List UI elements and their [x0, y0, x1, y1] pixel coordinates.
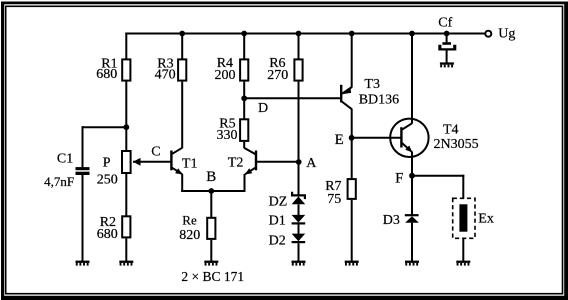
transistor T2: [244, 148, 256, 175]
svg-text:4,7nF: 4,7nF: [44, 174, 74, 189]
label Ex: [478, 211, 494, 226]
wire (R3 to T1 collector): [181, 34, 183, 149]
ground (Re): [204, 261, 218, 266]
node (R1/P/C1 junction): [123, 124, 129, 130]
zener diode DZ: [292, 192, 306, 205]
label Ug: [498, 26, 515, 41]
terminal Ug: [485, 31, 491, 37]
wire (node to C1): [82, 126, 127, 167]
wire (R5 to T2 collector): [243, 142, 245, 149]
wire (T2 base to node A): [256, 161, 300, 163]
node A: [296, 159, 302, 165]
resistor R5: [240, 119, 248, 141]
wiper arrow (P): [133, 158, 141, 166]
label D: [258, 101, 268, 116]
svg-text:A: A: [306, 156, 317, 171]
transistor T4: [390, 119, 428, 157]
wire (top supply rail): [125, 33, 484, 35]
wire (B to Re): [210, 191, 212, 218]
wire (T1 base from P): [133, 161, 171, 163]
wire (D2 to ground): [298, 243, 300, 261]
svg-text:F: F: [395, 171, 403, 187]
label E: [335, 132, 344, 148]
label D2: [269, 234, 286, 249]
wire (rail to T3 emitter): [351, 34, 353, 88]
node (rail/R6): [296, 31, 302, 37]
svg-text:D2: D2: [269, 234, 286, 249]
node (rail/T3 emitter): [349, 31, 355, 37]
node F: [409, 173, 415, 179]
label T2: [228, 156, 244, 171]
wire (R7 to ground): [351, 200, 353, 261]
svg-text:B: B: [206, 169, 216, 185]
wire (T2 emitter down): [244, 174, 246, 192]
wire (P top): [125, 127, 127, 151]
capacitor Cf: [438, 34, 456, 63]
label R4: [215, 56, 236, 83]
potentiometer P: [122, 151, 131, 173]
svg-text:680: 680: [97, 227, 118, 242]
wire (A to DZ): [298, 162, 300, 195]
svg-text:680: 680: [96, 67, 117, 82]
label T3: [359, 77, 399, 108]
resistor R7: [348, 179, 356, 199]
label D3: [383, 213, 400, 228]
wire (C1 to ground): [82, 175, 84, 261]
ground (D3): [405, 261, 419, 266]
svg-text:Cf: Cf: [438, 15, 452, 30]
label B: [206, 169, 216, 185]
wire (P bottom to R2): [125, 174, 127, 216]
resistor R2: [122, 216, 130, 237]
label D1: [269, 214, 286, 229]
svg-text:2 × BC 171: 2 × BC 171: [181, 269, 244, 284]
node D: [241, 95, 247, 101]
svg-text:D1: D1: [269, 214, 286, 229]
svg-text:Re: Re: [182, 213, 197, 228]
label P: [97, 156, 118, 188]
svg-text:C1: C1: [57, 151, 73, 166]
ground (R2): [119, 261, 133, 266]
svg-text:P: P: [103, 156, 111, 171]
wire (E to T4 base): [352, 137, 402, 139]
label R1: [96, 56, 117, 82]
wire (Cf to Ug): [447, 33, 486, 35]
svg-text:E: E: [335, 132, 344, 148]
label R6: [267, 56, 288, 83]
node E: [349, 135, 355, 141]
wire (D3 to ground): [411, 223, 413, 261]
label C: [151, 145, 160, 160]
wire (Re to ground): [210, 240, 212, 261]
resistor Re: [207, 218, 215, 239]
node (rail/T4): [409, 31, 415, 37]
svg-text:270: 270: [267, 68, 288, 83]
wire (rail to T4 collector): [411, 34, 413, 124]
diode D3: [405, 214, 419, 223]
svg-text:BD136: BD136: [359, 93, 399, 108]
label Cf: [438, 15, 452, 30]
resistor R4: [240, 59, 248, 80]
resistor R1: [122, 59, 130, 80]
wire (Ex to ground): [462, 238, 464, 261]
svg-text:2N3055: 2N3055: [434, 137, 479, 152]
svg-text:470: 470: [155, 68, 176, 83]
node (rail/Cf): [444, 31, 450, 37]
transistor T1: [171, 148, 182, 175]
label R2: [97, 215, 118, 242]
wire (F to Ex): [412, 175, 464, 199]
svg-text:DZ: DZ: [269, 195, 288, 210]
svg-text:C: C: [151, 145, 160, 160]
label T1: [182, 157, 198, 172]
node (rail/R4): [241, 31, 247, 37]
svg-text:75: 75: [327, 192, 341, 207]
label A: [306, 156, 317, 171]
wire (rail drop to R1): [125, 33, 127, 60]
svg-text:D3: D3: [383, 213, 400, 228]
wire (R1 to node): [125, 82, 127, 128]
diode D2: [292, 234, 306, 244]
wire (T3 collector down): [351, 109, 353, 179]
node (rail/R3): [179, 31, 185, 37]
capacitor C1: [76, 167, 90, 175]
wire (D1 to D2): [298, 225, 300, 235]
svg-text:T2: T2: [228, 156, 244, 171]
svg-text:Ex: Ex: [478, 211, 494, 226]
wire (D to R5): [243, 98, 245, 119]
label 2xBC171: [181, 269, 244, 284]
node B: [208, 188, 214, 194]
wire (R2 to ground): [125, 238, 127, 261]
wire (DZ to D1): [298, 204, 300, 215]
ground (C1): [76, 261, 90, 266]
svg-text:200: 200: [215, 68, 236, 83]
wire (D to T3 base): [244, 97, 341, 99]
svg-text:Ug: Ug: [498, 26, 515, 41]
ground (diode stack): [292, 261, 306, 266]
resistor R6: [294, 59, 302, 80]
wire (T1 emitter down): [181, 174, 183, 192]
svg-text:250: 250: [97, 173, 118, 188]
svg-text:T3: T3: [364, 77, 380, 92]
label DZ: [269, 195, 288, 210]
wire (T4 emitter to D3): [411, 152, 413, 215]
ground (Cf): [440, 62, 454, 67]
label R5: [217, 116, 238, 143]
label T4: [434, 122, 479, 151]
resistor R3: [178, 59, 186, 80]
element Ex: [453, 198, 475, 238]
label R7: [325, 179, 341, 207]
svg-text:330: 330: [217, 128, 238, 143]
svg-text:T1: T1: [182, 157, 198, 172]
svg-text:D: D: [258, 101, 268, 116]
svg-text:T4: T4: [443, 122, 459, 137]
transistor T3: [341, 85, 352, 110]
label C1: [44, 151, 74, 189]
wire (R6 to node A): [298, 34, 300, 163]
label R3: [155, 56, 176, 82]
wire (emitters to node B): [181, 190, 245, 192]
label F: [395, 171, 403, 187]
label Re: [179, 213, 200, 243]
diode D1: [292, 215, 306, 225]
ground (R7): [345, 261, 359, 266]
ground (Ex): [456, 261, 470, 266]
svg-text:820: 820: [179, 228, 200, 243]
wire (rail to R4): [243, 34, 245, 99]
